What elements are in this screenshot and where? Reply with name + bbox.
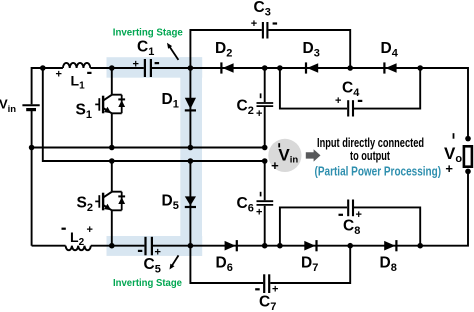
node D5 bottom bus — [188, 243, 194, 249]
diode D6 — [216, 240, 237, 274]
capacitor C2 — [237, 68, 274, 148]
svg-text:+: + — [256, 207, 262, 219]
inverting stage highlight bottom band — [107, 236, 203, 256]
node C3 right top bus — [347, 65, 353, 71]
svg-text:+: + — [56, 69, 62, 81]
svg-text:C6: C6 — [237, 195, 254, 214]
inverting stage highlight vertical band — [180, 57, 202, 256]
svg-text:C7: C7 — [259, 294, 276, 312]
capacitor C7 — [255, 274, 278, 312]
wire top bus C1 to right corner and down — [152, 68, 468, 139]
rail A wire — [32, 147, 265, 149]
node C8 loop right bottom bus — [417, 243, 423, 249]
node top bus left riser — [40, 65, 46, 71]
svg-text:D2: D2 — [215, 40, 232, 59]
svg-text:C2: C2 — [237, 98, 254, 117]
svg-text:(Partial Power Processing): (Partial Power Processing) — [315, 163, 442, 178]
svg-text:S2: S2 — [77, 195, 93, 214]
node C6 rail B — [262, 158, 268, 164]
diode D1 — [162, 68, 197, 148]
annotation arrow bottom — [170, 255, 179, 269]
node S1 rail A — [109, 145, 115, 151]
capacitor C3 — [251, 0, 277, 39]
inverting stage highlight top band — [107, 57, 203, 77]
wire C4 loop — [280, 68, 420, 109]
node C4 loop right top bus — [417, 65, 423, 71]
svg-text:S1: S1 — [76, 102, 92, 121]
svg-text:D4: D4 — [381, 40, 399, 59]
inductor L1 — [56, 63, 92, 92]
svg-text:+: + — [87, 224, 93, 236]
node load top — [465, 136, 471, 142]
svg-text:C5: C5 — [144, 256, 161, 275]
svg-text:D6: D6 — [216, 255, 233, 274]
label inverting stage bottom — [113, 277, 182, 289]
capacitor C1 — [133, 39, 160, 77]
annotation input directly connected — [317, 136, 424, 163]
node load bottom — [465, 169, 471, 175]
svg-text:+: + — [272, 284, 278, 296]
label inverting stage top — [113, 27, 183, 39]
wire battery negative down to L2 rail — [31, 111, 33, 246]
capacitor C8 — [339, 200, 362, 237]
wire bottom bus C5 to right corner and up — [153, 171, 468, 245]
svg-text:+: + — [256, 108, 262, 120]
svg-text:D7: D7 — [301, 255, 318, 274]
capacitor C4 — [335, 80, 362, 117]
wire riser to rail B and rail B — [43, 68, 265, 161]
battery Vin — [0, 97, 40, 115]
diode D7 — [301, 240, 318, 274]
wire L1 to C1 — [90, 67, 144, 69]
node C7 right bottom bus — [347, 243, 353, 249]
node battery rail A — [29, 145, 35, 151]
diode D4 — [381, 40, 399, 74]
transistor S2 — [77, 161, 126, 246]
svg-text:D1: D1 — [162, 91, 179, 110]
diode D3 — [303, 40, 320, 74]
wire C3 branch — [190, 30, 350, 68]
svg-text:+: + — [155, 247, 161, 259]
diode D5 — [162, 161, 197, 246]
svg-text:Vin: Vin — [0, 97, 16, 115]
node S2 bottom bus — [109, 243, 115, 249]
svg-text:D5: D5 — [162, 193, 179, 212]
node C2 top bus — [262, 65, 268, 71]
annotation arrow top — [167, 43, 178, 60]
svg-text:D8: D8 — [380, 255, 397, 274]
node S1 top bus — [109, 65, 115, 71]
capacitor C5 — [138, 237, 161, 276]
wire battery positive to L1 — [32, 68, 63, 104]
annotation partial power processing — [315, 163, 442, 178]
svg-text:to output: to output — [350, 149, 391, 163]
svg-text:Inverting Stage: Inverting Stage — [113, 277, 182, 289]
svg-text:Inverting Stage: Inverting Stage — [113, 27, 183, 39]
node Vin circle — [268, 139, 301, 173]
svg-text:C3: C3 — [254, 0, 271, 18]
svg-text:+: + — [356, 209, 362, 221]
svg-text:+: + — [445, 161, 453, 176]
wire C8 loop — [280, 207, 420, 245]
svg-text:C1: C1 — [137, 39, 154, 58]
inductor L2 — [62, 224, 93, 250]
wire L2 to C5 — [91, 245, 145, 247]
svg-text:+: + — [133, 59, 139, 71]
node D5 rail B — [188, 158, 194, 164]
wire bottom bus left to L2 — [32, 245, 66, 247]
load resistor — [464, 146, 472, 166]
transistor S1 — [76, 68, 126, 148]
svg-text:C4: C4 — [342, 80, 360, 99]
node D1 rail A — [188, 145, 194, 151]
diode D8 — [380, 240, 397, 274]
node C2 rail A — [262, 145, 268, 151]
svg-text:+: + — [335, 95, 341, 107]
node S2 rail B — [109, 158, 115, 164]
grey arrow input to output — [306, 149, 321, 161]
label Vo — [444, 133, 462, 176]
node C8 loop left bottom bus — [277, 243, 283, 249]
node C3 left top bus — [188, 65, 194, 71]
svg-text:L2: L2 — [70, 229, 85, 248]
diode D2 — [215, 40, 234, 74]
svg-text:L1: L1 — [71, 73, 86, 92]
node C6 bottom bus — [262, 243, 268, 249]
svg-text:+: + — [251, 18, 257, 30]
capacitor C6 — [237, 161, 274, 246]
wire C7 branch — [190, 246, 350, 283]
svg-text:+: + — [271, 158, 279, 173]
svg-text:D3: D3 — [303, 40, 320, 59]
node C4 loop left top bus — [277, 65, 283, 71]
